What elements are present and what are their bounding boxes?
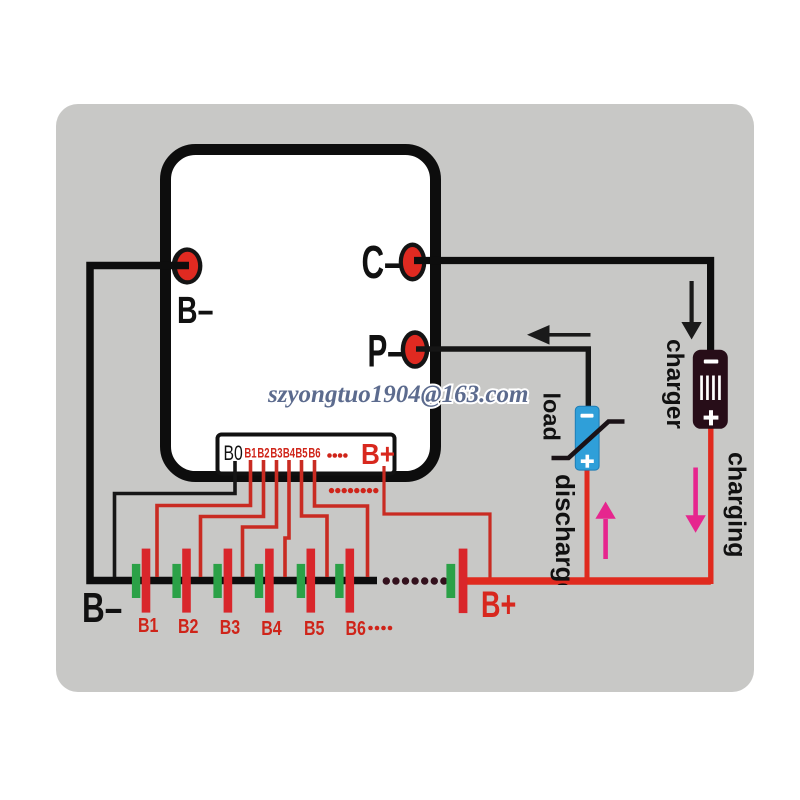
svg-text:B–: B– bbox=[177, 290, 213, 332]
wire B2 balance bbox=[201, 460, 264, 577]
charger U2 bbox=[693, 350, 728, 429]
wire load positive bbox=[585, 468, 590, 581]
battery cell 6 bbox=[335, 549, 354, 613]
svg-text:B6: B6 bbox=[308, 445, 320, 461]
wire P- to load bbox=[416, 349, 588, 407]
battery continuation dots bbox=[383, 577, 448, 584]
svg-text:B2: B2 bbox=[178, 615, 198, 637]
svg-text:charging: charging bbox=[723, 452, 751, 558]
BMS board U1 bbox=[166, 150, 436, 477]
wire B1 balance bbox=[157, 460, 251, 577]
wire C- to charger bbox=[414, 261, 711, 352]
svg-text:B+: B+ bbox=[361, 438, 395, 471]
svg-text:B+: B+ bbox=[481, 584, 516, 625]
connector ellipsis dots bbox=[327, 453, 348, 458]
terminal C- pad bbox=[399, 243, 427, 282]
battery cell N bbox=[446, 549, 467, 614]
arrow pink down bbox=[685, 468, 705, 533]
wire B+ sense bbox=[384, 466, 490, 578]
arrow charger input down bbox=[681, 281, 701, 340]
svg-text:B5: B5 bbox=[295, 445, 307, 461]
svg-text:B3: B3 bbox=[270, 445, 282, 461]
wire B6 balance bbox=[315, 460, 368, 577]
battery cell 3 bbox=[213, 549, 232, 613]
svg-text:B–: B– bbox=[82, 584, 122, 632]
svg-text:discharge: discharge bbox=[550, 474, 580, 597]
svg-text:B5: B5 bbox=[304, 617, 324, 639]
wire B3 balance bbox=[243, 460, 277, 577]
label cell ellipsis bbox=[368, 626, 392, 631]
wire B- main bbox=[90, 266, 377, 581]
svg-text:szyongtuo1904@163.com: szyongtuo1904@163.com bbox=[267, 381, 528, 408]
arrow pink up bbox=[595, 502, 615, 560]
svg-text:B0: B0 bbox=[224, 441, 243, 465]
wire B5 balance bbox=[302, 460, 328, 577]
svg-text:B6: B6 bbox=[346, 617, 366, 639]
svg-text:B1: B1 bbox=[244, 445, 256, 461]
wire dots row bbox=[329, 488, 379, 493]
wire charger positive bbox=[708, 428, 713, 584]
terminal B- pad bbox=[172, 247, 203, 284]
svg-text:B2: B2 bbox=[257, 445, 269, 461]
load battery symbol bbox=[575, 406, 599, 470]
svg-text:B1: B1 bbox=[138, 614, 158, 636]
arrow discharge left bbox=[527, 325, 591, 345]
wire B4 balance bbox=[285, 460, 289, 577]
battery cell 2 bbox=[172, 549, 190, 613]
svg-text:charger: charger bbox=[661, 339, 688, 429]
battery cell 1 bbox=[132, 549, 150, 613]
svg-text:B4: B4 bbox=[283, 445, 295, 461]
svg-text:P–: P– bbox=[368, 326, 404, 377]
svg-text:C–: C– bbox=[362, 237, 402, 288]
wire B+ bus red bbox=[467, 577, 711, 585]
svg-text:B4: B4 bbox=[261, 617, 281, 639]
svg-text:B3: B3 bbox=[220, 616, 240, 638]
wire B0 sense bbox=[115, 461, 236, 577]
gray background panel bbox=[56, 104, 754, 692]
svg-text:load: load bbox=[539, 393, 565, 441]
label discharge bbox=[550, 474, 580, 597]
battery cell 5 bbox=[297, 549, 315, 613]
battery cell 4 bbox=[255, 549, 274, 613]
terminal P- pad bbox=[401, 330, 430, 369]
balance connector J1 bbox=[218, 435, 395, 474]
switch S1 bbox=[552, 422, 625, 459]
